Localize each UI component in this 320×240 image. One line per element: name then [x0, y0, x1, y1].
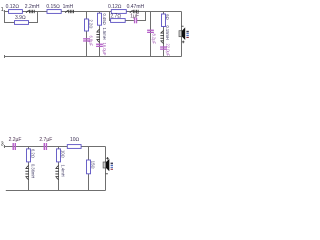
- capacitor C7 2.7uF: [44, 143, 45, 150]
- svg-text:2.7µF: 2.7µF: [39, 137, 52, 143]
- svg-text:0.12Ω: 0.12Ω: [6, 4, 20, 10]
- speaker SPK1 tweeter body: [179, 31, 182, 37]
- inductor L4 0.47mH: [130, 10, 139, 13]
- svg-text:1.4mH: 1.4mH: [61, 165, 66, 177]
- wire top main horizontal: [4, 11, 182, 13]
- resistor R8 6 ohm: [162, 14, 166, 27]
- svg-text:3.9Ω: 3.9Ω: [15, 15, 26, 21]
- node 1 terminal tick: [4, 10, 6, 14]
- svg-text:0.12Ω: 0.12Ω: [108, 4, 122, 10]
- svg-text:2.2mH: 2.2mH: [25, 4, 40, 10]
- resistor R2 3.9 ohm: [15, 21, 29, 25]
- svg-text:10Ω: 10Ω: [61, 150, 66, 158]
- speaker SPK2 woofer plus mark: [106, 157, 109, 160]
- wire shunt branch C vertical: [163, 12, 165, 57]
- capacitor C5 22uF: [160, 46, 167, 47]
- wire section2 lower branch rise: [137, 12, 146, 21]
- svg-text:1.5mH: 1.5mH: [102, 28, 107, 40]
- speaker SPK2 woofer minus mark: [106, 173, 108, 175]
- resistor R4 2.2 ohm: [85, 19, 89, 31]
- capacitor C4 8.2uF: [147, 30, 154, 31]
- svg-text:1mH: 1mH: [63, 4, 74, 10]
- speaker SPK2 woofer body: [103, 162, 106, 168]
- svg-text:22.0µF: 22.0µF: [166, 44, 171, 57]
- wire shunt branch A vertical: [86, 12, 88, 57]
- resistor R1 0.12 ohm: [9, 10, 23, 14]
- inductor L3 1.5mH: [96, 29, 99, 42]
- svg-text:3: 3: [1, 141, 4, 147]
- speaker SPK1 tweeter plus mark: [182, 41, 185, 44]
- capacitor C2 16uF: [96, 44, 103, 45]
- wire parallel branch 1 drop: [5, 12, 15, 23]
- svg-text:10Ω: 10Ω: [70, 137, 80, 143]
- svg-text:0.15Ω: 0.15Ω: [46, 4, 60, 10]
- wire parallel branch 1 rise: [29, 12, 38, 23]
- svg-text:0.36mH: 0.36mH: [31, 164, 36, 178]
- wire right vertical to woofer: [105, 147, 107, 191]
- resistor R7 2.7 ohm: [111, 19, 126, 23]
- svg-text:2.2µF: 2.2µF: [9, 137, 22, 143]
- wire bottom shunt branch 1 vertical: [28, 147, 30, 191]
- resistor R6 0.12 ohm: [111, 10, 126, 14]
- speaker SPK2 label rotated: [111, 163, 113, 165]
- resistor R5 0.45 ohm: [98, 13, 102, 25]
- resistor R12 15 ohm: [87, 160, 91, 174]
- speaker SPK1 tweeter minus mark: [182, 25, 184, 27]
- speaker SPK1 label rotated: [186, 31, 188, 33]
- resistor R3 0.15 ohm: [47, 10, 61, 14]
- node 3 terminal tick: [4, 145, 6, 148]
- capacitor C6 2.2uF: [13, 143, 14, 150]
- svg-text:6.8µF: 6.8µF: [88, 36, 93, 47]
- wire right vertical to tweeter: [181, 12, 183, 57]
- svg-text:0.47mH: 0.47mH: [127, 4, 145, 10]
- svg-text:15Ω: 15Ω: [91, 161, 96, 169]
- svg-text:6.2Ω: 6.2Ω: [31, 149, 36, 158]
- wire bottom shunt resistor branch vertical: [88, 147, 90, 191]
- svg-text:1: 1: [1, 7, 4, 13]
- svg-text:2.2Ω: 2.2Ω: [88, 20, 93, 29]
- resistor R11 10 ohm: [67, 145, 81, 149]
- resistor R10 1 ohm: [57, 149, 61, 162]
- inductor L5 0.15mH: [160, 30, 163, 43]
- wire top ground rail: [4, 56, 182, 58]
- wire bottom shunt branch 2 vertical: [58, 147, 60, 191]
- svg-text:0.45Ω: 0.45Ω: [102, 14, 107, 25]
- capacitor C3 1uF: [134, 18, 135, 24]
- inductor L1 2.2mH: [26, 10, 35, 13]
- svg-text:8.2µF: 8.2µF: [152, 34, 157, 45]
- capacitor C1 6.8uF: [83, 38, 90, 39]
- svg-text:6Ω: 6Ω: [165, 14, 170, 19]
- svg-text:16.0µF: 16.0µF: [102, 43, 107, 56]
- wire bottom ground rail: [6, 190, 106, 192]
- inductor L2 1mH: [65, 10, 74, 13]
- wire shunt capacitor branch D vertical: [150, 12, 152, 57]
- wire shunt branch B vertical: [99, 12, 101, 57]
- inductor L7 1.4mH: [55, 165, 58, 179]
- wire section2 lower branch drop: [110, 12, 134, 21]
- svg-text:0.15mH: 0.15mH: [165, 26, 170, 40]
- inductor L6 1.4mH: [25, 165, 28, 179]
- rail terminal tick: [4, 55, 6, 58]
- resistor R9 6.2 ohm: [27, 149, 31, 162]
- wire bottom main horizontal: [4, 146, 106, 148]
